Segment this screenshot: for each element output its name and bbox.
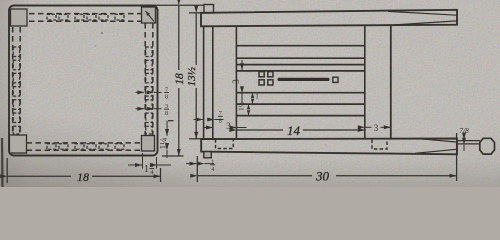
leg tenon through top [204,5,214,14]
left upright [203,26,205,139]
dim 1 3/4 bottom right leg [128,153,171,169]
left apron tenon chain [13,47,19,134]
table top outline [9,6,158,156]
beam chamfer upper [420,139,457,142]
leg top-left [11,9,28,26]
handle knob (octagon) [480,138,495,154]
rails box right edge [364,25,366,140]
svg-text:18: 18 [174,73,186,85]
svg-text:8: 8 [165,110,168,117]
bottom apron tenon chain [47,144,124,150]
svg-text:3: 3 [231,79,241,84]
dim 3/4 bottom left [186,163,214,165]
svg-text:13½: 13½ [186,67,198,86]
foot block [204,152,212,158]
svg-text:4: 4 [150,169,153,176]
leg bottom-right [142,136,155,152]
leader arrow in top-right leg [146,11,155,22]
bench top slab [201,10,457,27]
screw shaft [458,140,480,142]
svg-text:3: 3 [374,123,379,133]
svg-text:1: 1 [144,164,149,175]
svg-text:1¼: 1¼ [160,138,170,150]
svg-text:1½: 1½ [238,102,246,111]
screw plate squares [259,72,273,85]
svg-text:1: 1 [255,93,259,101]
dim 3 right gap [365,126,391,128]
dim 7/8 right apron [136,91,162,93]
slab end chamfer upper [388,11,457,15]
svg-text:30: 30 [315,169,330,184]
rails horizontal lines [236,46,364,116]
leg bottom-left [10,135,27,153]
outline arc at top-right corner (over leg) [153,6,158,11]
svg-text:8: 8 [165,94,168,101]
screw rod [278,78,330,81]
dim 5/8 right edge [136,108,162,110]
left apron (hidden) [13,27,21,135]
right apron (hidden) [145,23,153,136]
leg top-right [142,7,156,23]
dim 18 vertical [146,5,204,156]
svg-text:3: 3 [226,122,231,132]
dim 3 gap left [204,127,247,129]
dim 13 1/2 vertical [189,13,203,139]
svg-text:7/8: 7/8 [459,126,469,135]
dim 18 horizontal bottom [7,158,160,183]
dim 3 screw box height [241,60,243,104]
rod end square [333,77,338,82]
rails box left edge [235,26,237,140]
dim 1 1/4 vertical right [167,121,174,159]
hidden mortise right [372,140,387,150]
top apron (hidden) [29,14,142,22]
dim 30 [197,133,456,182]
beam chamfer lower [415,149,457,153]
bottom apron (hidden) [27,143,142,150]
hidden mortise left [216,139,234,148]
scan blotches [95,32,327,146]
dim 14 [236,129,364,131]
paper background [0,0,500,187]
slab end chamfer lower [395,21,457,25]
right upright [390,25,392,140]
svg-text:8: 8 [219,117,222,124]
svg-text:14: 14 [287,123,301,138]
bottom board (screw beam) [201,139,457,155]
svg-text:18: 18 [77,170,89,184]
page edge artifact [1,138,4,187]
dim 7/8 left upright [194,119,224,121]
top apron tenon chain [47,14,124,20]
right apron tenon chain [146,47,152,134]
